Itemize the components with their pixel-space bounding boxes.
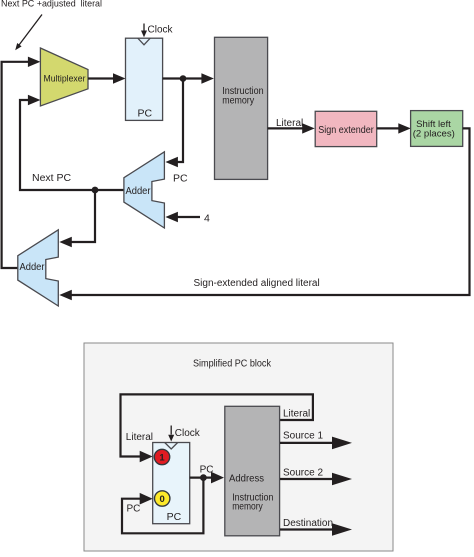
clock notch on bottom PC [165,443,178,450]
adder A1 [124,152,164,228]
svg-text:PC: PC [138,108,153,120]
arrowhead into PC register literal input [140,451,153,463]
node: junction on bottom PC output [200,474,207,481]
annotation arrow to wire [15,15,42,51]
arrowhead into instruction memory [201,73,214,83]
svg-text:Next PC +adjusted literal: Next PC +adjusted literal [1,0,102,9]
sign extender [315,111,377,146]
wire: multiplexer output to PC [88,77,115,79]
svg-text:Literal: Literal [126,432,153,443]
svg-text:Source 1: Source 1 [283,431,323,442]
arrowhead source 2 [332,473,352,486]
arrowhead into sign extender [302,123,315,133]
wire: PC feedback loop to 0 input [122,478,203,534]
register PC (top) [126,38,163,120]
arrowhead into PC 0 input [140,493,153,505]
wire: source 2 output [280,478,334,480]
svg-text:Adder: Adder [126,185,151,197]
wire: PC output to instruction memory [163,77,204,79]
svg-text:Destination: Destination [283,518,333,529]
svg-text:Source 2: Source 2 [283,468,323,479]
wire: literal from instruction memory to sign extender [268,127,304,129]
svg-text:PC: PC [167,511,182,523]
wire: sign-extended aligned literal back to adder2 [70,128,470,295]
instruction memory (top) [215,37,268,179]
svg-text:memory: memory [232,501,263,512]
wire: bottom PC output to address [190,477,214,479]
shift left (2 places) [411,111,463,147]
node: junction on Next PC wire [92,187,99,194]
panel: Simplified PC block [84,343,393,551]
node: red select 1 [154,449,169,464]
svg-text:Next PC: Next PC [32,172,72,184]
svg-text:Sign extender: Sign extender [318,124,374,136]
node: junction on PC output [180,75,187,82]
arrowhead into multiplexer top input [28,57,41,67]
svg-text:Literal: Literal [276,118,303,129]
arrowhead into PC [113,73,126,83]
instruction memory (bottom) [225,406,280,536]
arrowhead into adder1 top input [165,157,178,167]
wire: sign extender to shift left [377,127,400,129]
register PC (bottom) [153,443,190,524]
wire: adder2 output up the left edge into multiplexer top input [2,62,30,268]
multiplexer [40,48,88,106]
clock input arrow (bottom) [168,426,174,442]
wire: literal feedback loop (top of panel) [121,394,313,456]
svg-text:PC: PC [200,465,214,476]
wire: source 1 output [280,442,334,444]
wire: constant 4 into adder1 [176,216,200,218]
wire: destination output [280,528,334,530]
svg-text:memory: memory [222,95,254,106]
arrowhead into adder1 bottom input [165,212,178,222]
svg-text:Sign-extended aligned literal: Sign-extended aligned literal [194,278,320,289]
svg-text:Simplified PC block: Simplified PC block [193,359,272,370]
clock notch on PC [138,38,150,45]
svg-text:0: 0 [160,494,165,505]
arrowhead destination [332,523,352,536]
svg-text:PC: PC [173,173,188,185]
arrowhead into adder2 top input [59,237,72,247]
svg-text:Clock: Clock [175,428,201,439]
clock input arrow [141,24,147,38]
wire: Next PC feedback to multiplexer bottom input [20,100,124,190]
svg-text:Literal: Literal [283,409,310,420]
svg-text:Clock: Clock [148,25,174,36]
svg-text:Address: Address [229,474,264,485]
arrowhead source 1 [332,437,352,450]
svg-text:Adder: Adder [20,261,45,273]
arrowhead into shift left [398,123,411,133]
arrowhead into address input [211,472,224,484]
svg-text:Multiplexer: Multiplexer [44,74,87,85]
wire: junction down to adder2 top input [70,190,95,242]
arrowhead into adder2 bottom input [59,290,72,300]
wire: junction down to adder1 top input (PC) [176,79,183,163]
adder A2 [18,230,59,306]
node: yellow select 0 [155,491,170,506]
arrowhead into multiplexer bottom input [28,95,41,105]
svg-text:4: 4 [204,213,210,225]
svg-text:1: 1 [159,453,165,464]
svg-text:(2 places): (2 places) [413,128,455,139]
svg-text:PC: PC [127,504,141,515]
